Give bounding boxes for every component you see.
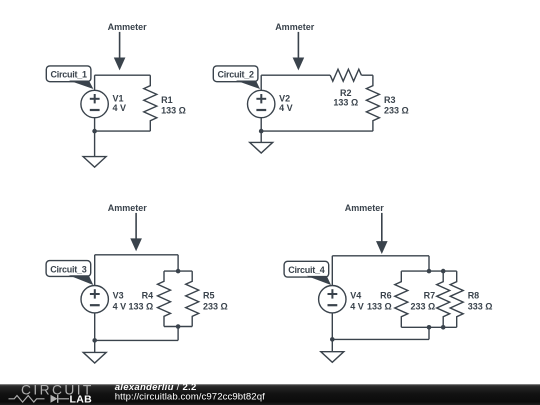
svg-text:R1: R1 — [161, 95, 173, 105]
svg-text:V3: V3 — [113, 290, 124, 300]
svg-text:R3: R3 — [384, 95, 396, 105]
svg-text:Circuit_2: Circuit_2 — [217, 70, 254, 80]
svg-text:R8: R8 — [468, 290, 480, 300]
svg-text:4 V: 4 V — [113, 301, 127, 311]
svg-text:233 Ω: 233 Ω — [203, 301, 228, 311]
svg-text:R4: R4 — [142, 290, 154, 300]
svg-text:Circuit_3: Circuit_3 — [50, 264, 87, 274]
svg-text:333 Ω: 333 Ω — [468, 301, 493, 311]
svg-text:Ammeter: Ammeter — [108, 203, 148, 213]
svg-text:133 Ω: 133 Ω — [367, 301, 392, 311]
svg-text:Ammeter: Ammeter — [275, 22, 315, 32]
svg-text:Ammeter: Ammeter — [345, 203, 385, 213]
svg-text:133 Ω: 133 Ω — [333, 98, 358, 108]
svg-text:4 V: 4 V — [279, 103, 293, 113]
svg-text:4 V: 4 V — [113, 103, 127, 113]
svg-text:4 V: 4 V — [350, 301, 364, 311]
svg-text:Circuit_4: Circuit_4 — [288, 265, 325, 275]
svg-text:V1: V1 — [113, 94, 124, 104]
svg-text:LAB: LAB — [70, 394, 93, 405]
svg-text:233 Ω: 233 Ω — [384, 105, 409, 115]
svg-text:R7: R7 — [424, 290, 436, 300]
svg-text:133 Ω: 133 Ω — [128, 301, 153, 311]
svg-text:233 Ω: 233 Ω — [410, 301, 435, 311]
svg-text:R6: R6 — [380, 290, 392, 300]
svg-text:http://circuitlab.com/c972cc9b: http://circuitlab.com/c972cc9bt82qf — [115, 392, 265, 403]
svg-text:R5: R5 — [203, 290, 215, 300]
svg-text:V2: V2 — [279, 94, 290, 104]
svg-text:V4: V4 — [350, 290, 361, 300]
svg-text:Ammeter: Ammeter — [108, 22, 148, 32]
svg-text:Circuit_1: Circuit_1 — [50, 70, 87, 80]
svg-text:133 Ω: 133 Ω — [161, 105, 186, 115]
